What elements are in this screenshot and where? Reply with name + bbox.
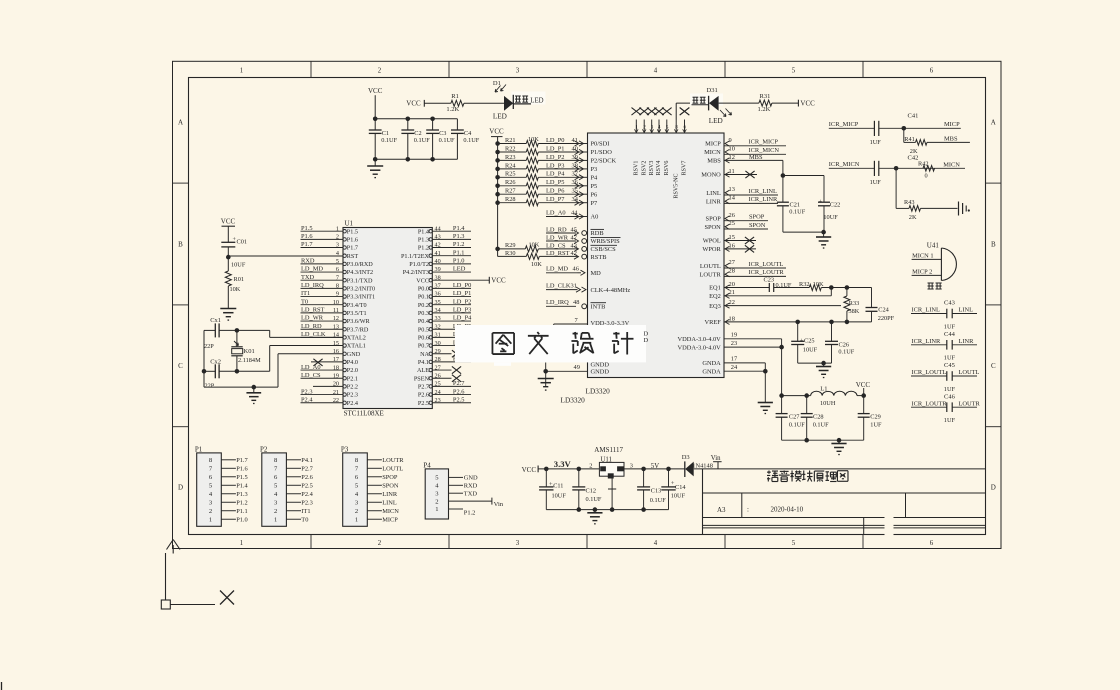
svg-text:MONO: MONO [701,172,721,179]
svg-text:0.1UF: 0.1UF [838,348,854,355]
capacitor C1 [374,119,376,130]
svg-text:13: 13 [729,186,735,193]
resistor R43 2K [895,168,897,208]
net ICR_LOUTL [725,263,730,268]
svg-text:3: 3 [516,540,520,547]
svg-text:P1.0/T2: P1.0/T2 [409,261,429,268]
white stripe [885,514,894,547]
svg-text:R22: R22 [505,145,516,152]
svg-text:P2: P2 [260,446,268,454]
svg-text:P2/SDCK: P2/SDCK [591,158,617,165]
svg-text:9: 9 [729,137,732,144]
svg-text:P2.5: P2.5 [418,400,429,407]
svg-text:46: 46 [573,266,579,273]
resistor R22 [495,150,500,155]
svg-text:RSV2: RSV2 [641,161,647,176]
svg-text:C26: C26 [839,341,850,348]
svg-text:P2.3: P2.3 [301,388,313,395]
capacitor C26 [831,322,833,341]
wire left cap rail [203,330,205,387]
page edge mark [1,682,3,690]
capacitor C12 [578,469,580,487]
capacitor C2 [407,119,409,130]
svg-text:P0.0: P0.0 [418,285,429,292]
net SPON [725,224,730,229]
svg-text:P0.5: P0.5 [418,326,429,333]
svg-text:A: A [178,119,183,127]
label mic chinese [928,282,934,284]
svg-text:P3.0/RXD: P3.0/RXD [347,261,373,268]
wire VCC to C01 [227,226,229,242]
capacitor C3 [432,119,434,130]
resistor R1 1.2K [451,100,464,106]
svg-text:LOUTR: LOUTR [959,400,981,407]
svg-text:K01: K01 [244,348,255,355]
svg-text:P2.4: P2.4 [301,396,313,403]
svg-text:0.1UF: 0.1UF [463,137,479,144]
border frame outer [173,61,1002,548]
svg-text:49: 49 [574,364,580,371]
node C01/R01 junction [226,255,231,260]
svg-text:C42: C42 [908,155,919,162]
net ICR_LINR [725,199,730,204]
svg-text:LINL: LINL [706,190,721,197]
svg-text:LD_P1: LD_P1 [453,290,471,297]
svg-text:SPOP: SPOP [706,216,722,223]
capacitor C24 220PF [871,288,873,308]
U1 pins [343,230,346,233]
svg-text:2: 2 [209,508,212,515]
svg-text:P1.1: P1.1 [236,508,248,515]
svg-text:LD3320: LD3320 [586,387,611,396]
svg-text:GNDD: GNDD [591,369,610,376]
svg-text:P2.3: P2.3 [301,499,313,506]
ground (R01) [220,308,236,310]
svg-text:R1: R1 [451,93,459,100]
wire regulator ground rail [546,509,668,511]
svg-text:3: 3 [630,463,633,470]
svg-text:LOUTR: LOUTR [699,271,721,278]
ground (GNDD) [538,378,554,380]
svg-text:LD_P2: LD_P2 [546,154,564,161]
svg-text:P2.6: P2.6 [418,392,429,399]
wire D31 to R31 [719,102,759,104]
svg-text:GNDA: GNDA [702,360,721,367]
svg-text:27: 27 [729,259,736,266]
LED D31 [690,94,723,106]
border frame inner [189,78,986,535]
svg-text:LD_A0: LD_A0 [301,364,321,371]
title text voice module schematic [767,471,771,473]
svg-text:Vin: Vin [711,455,721,462]
svg-text:D3: D3 [682,454,690,461]
svg-text:2K: 2K [909,214,917,221]
wire cap top rail [375,118,457,120]
watermark text [492,332,514,334]
svg-text:LD_P4: LD_P4 [546,171,565,178]
wire VREF rail [725,319,730,324]
svg-text:T0: T0 [301,516,308,523]
svg-text:40: 40 [572,145,578,152]
svg-text:39: 39 [572,154,578,161]
svg-text:11: 11 [729,168,735,175]
svg-text:P1/SDO: P1/SDO [591,149,613,156]
svg-text:C4: C4 [464,130,472,137]
svg-text:P1.3: P1.3 [236,491,248,498]
wire crystal ground rail [204,386,278,388]
svg-text:RXD: RXD [301,258,315,265]
wire D3 to Vin [694,468,986,470]
wire C25/C26 ground rail [798,362,832,364]
svg-text:1UF: 1UF [944,323,956,330]
svg-text:VCC: VCC [522,466,537,474]
net LD_IRQ [546,305,576,307]
svg-text:C: C [178,362,183,370]
svg-text:LD3320: LD3320 [561,396,586,405]
svg-text:P3.1/TXD: P3.1/TXD [347,277,373,284]
watermark box [455,325,646,362]
capacitor C01 [221,241,235,243]
svg-text:P2.0: P2.0 [347,367,358,374]
svg-text:VCC: VCC [489,128,504,136]
capacitor C22 [818,201,830,203]
LD3320 RSV top pins [635,120,637,134]
svg-text:P3: P3 [591,166,598,173]
net LD_RD [546,232,576,234]
svg-text:L1: L1 [820,386,827,393]
svg-text:ICR_LINL: ICR_LINL [749,188,777,195]
svg-text:P1.2: P1.2 [453,241,465,248]
svg-text:R31: R31 [760,93,771,100]
svg-text:RST: RST [347,253,359,260]
svg-text:LINR: LINR [959,338,975,345]
svg-text:LD_RST: LD_RST [546,250,570,257]
svg-text:P2.7: P2.7 [301,465,313,472]
svg-text:P5: P5 [591,183,598,190]
svg-text:36: 36 [572,179,578,186]
svg-text:R41: R41 [904,136,915,143]
svg-text:P2.7: P2.7 [418,383,429,390]
svg-text:16: 16 [333,348,339,355]
svg-text:0.1UF: 0.1UF [586,496,602,503]
svg-text:10UF: 10UF [803,346,818,353]
svg-text:SPOP: SPOP [749,214,765,221]
title block [702,469,704,535]
svg-text:42: 42 [571,250,577,257]
svg-text:10UF: 10UF [552,492,567,499]
svg-text:10K: 10K [230,286,241,293]
svg-text:2: 2 [274,508,277,515]
svg-text:C: C [991,362,996,370]
inductor L1 10UH [782,395,811,397]
svg-text:23: 23 [731,340,737,347]
svg-text:MBS: MBS [944,135,958,142]
svg-text:2: 2 [378,68,382,75]
svg-text:2.1184M: 2.1184M [238,357,261,364]
svg-text:RDB: RDB [591,230,604,237]
svg-text::: : [747,506,749,514]
svg-text:10K: 10K [528,136,539,143]
resistor R01 [225,271,231,286]
svg-text:C28: C28 [813,413,824,420]
wire MBS to C21/C22 [782,160,784,202]
corner crop mark [167,540,181,554]
svg-text:P0.2: P0.2 [418,302,429,309]
svg-text:VCC: VCC [368,87,383,95]
svg-text:ICR_MICP: ICR_MICP [829,121,859,128]
svg-text:P4.1: P4.1 [301,457,313,464]
connector P3 [343,453,368,526]
svg-text:P1.4: P1.4 [236,482,248,489]
svg-text:LINR: LINR [382,491,398,498]
svg-text:6: 6 [930,540,934,547]
svg-text:LD_MD: LD_MD [301,266,323,273]
svg-text:R25: R25 [505,171,516,178]
svg-text:0.1UF: 0.1UF [650,497,666,504]
svg-text:C27: C27 [789,413,800,420]
svg-text:ICR_LOUTL: ICR_LOUTL [749,261,784,268]
resistor R23 [495,158,500,163]
capacitor C25 [797,322,799,341]
IC U1 STC11L08XE body [343,228,432,409]
resistor R31 1.2K [759,100,772,106]
svg-text:XTAL1: XTAL1 [347,343,366,350]
svg-text:LD_WR: LD_WR [546,234,569,241]
ground (GNDA) [758,402,773,404]
capacitor C28 [806,396,808,414]
svg-text:R27: R27 [505,188,516,195]
svg-text:LD_P5: LD_P5 [546,179,564,186]
svg-text:LED: LED [493,113,507,121]
svg-text:2: 2 [435,498,438,505]
ground (C1-C4) [374,159,376,166]
svg-text:D: D [991,484,996,492]
svg-text:+: + [819,199,823,206]
svg-text:IT1: IT1 [301,508,310,515]
svg-text:C29: C29 [870,413,881,420]
wire C21/C22 ground rail [783,231,824,233]
svg-text:15: 15 [333,340,339,347]
svg-text:VCC: VCC [406,100,421,108]
svg-text:12: 12 [729,154,735,161]
svg-text:VCC: VCC [221,218,236,226]
ground (VREF caps) [816,366,831,368]
svg-text:RSV6: RSV6 [664,161,670,176]
svg-text:SPOP: SPOP [382,474,398,481]
svg-text:Cx1: Cx1 [210,317,221,324]
svg-text:P3.5/T1: P3.5/T1 [347,310,367,317]
svg-text:P3.2/INIT0: P3.2/INIT0 [347,285,375,292]
svg-text:ICR_MICP: ICR_MICP [749,139,779,146]
connector P1 [197,453,222,526]
svg-text:5: 5 [792,68,796,75]
svg-text:C25: C25 [804,338,815,345]
svg-text:220PF: 220PF [878,315,895,322]
svg-text:C45: C45 [944,362,955,369]
svg-text:A3: A3 [717,506,726,514]
capacitor C14 [668,469,670,487]
svg-text:LD_P0: LD_P0 [453,282,471,289]
svg-text:P1.5: P1.5 [301,225,313,232]
svg-text:6: 6 [930,68,934,75]
wire cap bottom rail [375,158,457,160]
pin MONO no-connect [725,172,730,177]
svg-text:MD: MD [591,270,602,277]
svg-text:LOUTL: LOUTL [382,465,403,472]
svg-text:D31: D31 [707,87,718,94]
svg-text:21: 21 [729,289,735,296]
svg-text:INTB: INTB [591,304,606,311]
svg-text:1.2K: 1.2K [446,106,459,113]
svg-text:P1.5: P1.5 [347,228,358,235]
svg-text:P1.3: P1.3 [418,236,429,243]
svg-text:5V: 5V [651,463,659,470]
svg-text:19: 19 [731,332,737,339]
svg-text:P2.3: P2.3 [347,392,358,399]
ground (filter) [838,440,840,443]
svg-text:C13: C13 [651,487,662,494]
svg-text:P1.6: P1.6 [301,233,313,240]
svg-text:P1.7: P1.7 [301,241,313,248]
svg-text:43: 43 [571,242,577,249]
svg-text:2020-04-10: 2020-04-10 [771,506,804,514]
svg-text:P4.0: P4.0 [347,359,358,366]
svg-text:LD_RST: LD_RST [301,307,325,314]
svg-text:P1.7: P1.7 [236,457,248,464]
svg-text:C21: C21 [790,201,801,208]
resistor R28 [495,200,500,205]
svg-text:1: 1 [355,516,358,523]
wire R1 to D1 [464,102,504,104]
wire Cx1 rail to XTAL2 row [269,330,271,337]
resistor R25 [495,175,500,180]
grid column ticks [310,61,312,77]
svg-text:LD_RD: LD_RD [301,323,322,330]
svg-text:LD_A0: LD_A0 [546,209,566,216]
svg-text:4: 4 [654,540,658,547]
svg-text:P4: P4 [591,175,599,182]
svg-text:R24: R24 [505,162,516,169]
svg-text:10K: 10K [531,261,542,268]
svg-text:R28: R28 [505,196,516,203]
svg-text:VDDA-3.0-4.0V: VDDA-3.0-4.0V [677,344,721,351]
svg-text:MICN: MICN [382,508,399,515]
pin WPOL no-connect [725,238,730,243]
svg-text:LD_CLK31: LD_CLK31 [546,282,577,289]
net label red LED [693,96,699,98]
svg-text:LD_P2: LD_P2 [453,298,471,305]
svg-text:2: 2 [378,540,382,547]
svg-text:VREF: VREF [704,319,721,326]
svg-text:P3.6/WR: P3.6/WR [347,318,371,325]
svg-text:R23: R23 [505,154,516,161]
svg-text:D: D [178,484,183,492]
svg-text:1UF: 1UF [944,417,956,424]
svg-text:3: 3 [516,68,520,75]
capacitor C11 [545,469,547,487]
svg-text:P0/SDI: P0/SDI [591,141,610,148]
svg-text:LD_IRQ: LD_IRQ [546,299,569,306]
svg-text:P1.2: P1.2 [418,245,429,252]
wire junction to U1 pin4 RST [228,255,343,257]
svg-text:STC11L08XE: STC11L08XE [344,410,384,418]
resistor R21 [495,141,500,146]
svg-text:R21: R21 [505,137,516,144]
svg-text:R26: R26 [505,179,516,186]
wire VCC to R1 [424,102,451,104]
svg-text:PSEN: PSEN [414,375,430,382]
svg-text:P0.1: P0.1 [418,294,429,301]
node crystal top [235,328,240,333]
svg-text:45: 45 [571,226,577,233]
svg-text:0.1UF: 0.1UF [439,137,455,144]
svg-text:LD_P3: LD_P3 [546,162,564,169]
svg-text:P2.6: P2.6 [301,474,313,481]
wire R01 to ground [227,286,229,309]
net MICP 2 [912,274,942,276]
svg-text:LED: LED [453,266,466,273]
net LD_CLK [546,289,578,291]
ground (crystal) [253,387,255,393]
wire 3.3V rail [538,468,685,470]
svg-text:IT1: IT1 [301,290,310,297]
capacitor C29 [863,396,865,414]
resistor R33 38K [846,288,848,297]
svg-text:U11: U11 [601,457,612,464]
svg-text:P7: P7 [591,200,599,207]
svg-text:22: 22 [729,299,735,306]
resistor R29 [495,247,500,252]
wire Cx2 rail to XTAL1 row [269,346,271,372]
svg-text:20: 20 [729,281,735,288]
svg-text:C22: C22 [830,201,841,208]
wire VCC rail [497,137,499,257]
svg-text:EQ1: EQ1 [709,285,721,292]
jack symbol [958,202,960,216]
svg-text:P0.6: P0.6 [418,334,429,341]
svg-text:1N4148: 1N4148 [692,462,713,469]
svg-text:A0: A0 [591,214,599,221]
svg-text:RSTB: RSTB [591,254,607,261]
svg-text:RSV7: RSV7 [682,161,688,176]
svg-text:VDDA-3.0-4.0V: VDDA-3.0-4.0V [677,336,721,343]
svg-text:LD_P4: LD_P4 [453,315,472,322]
svg-text:10: 10 [729,145,735,152]
svg-text:1: 1 [240,68,243,75]
svg-text:LOUTL: LOUTL [959,369,980,376]
svg-text:RSV1: RSV1 [634,161,640,176]
wire GNDD pin49 [546,370,588,372]
svg-text:P1.0: P1.0 [453,258,465,265]
resistor R27 [495,192,500,197]
svg-text:ICR_MICN: ICR_MICN [829,161,860,168]
power flag VCC (U1 pin38) [488,277,490,284]
svg-text:P4.2/INT3: P4.2/INT3 [403,269,429,276]
resistor R24 [495,167,500,172]
svg-text:R30: R30 [505,250,516,257]
svg-text:C1: C1 [382,130,389,137]
pin WPOR no-connect [725,246,730,251]
svg-text:LD_RD: LD_RD [546,226,567,233]
svg-text:RSV4: RSV4 [656,161,662,176]
svg-text:P1.7: P1.7 [347,245,358,252]
net ICR_LOUTR [725,272,730,277]
net LD_A0 [546,216,578,218]
svg-text:LOUTL: LOUTL [700,263,721,270]
svg-text:C01: C01 [237,239,248,246]
svg-text:TXD: TXD [301,274,315,281]
svg-text:P4.3/INT2: P4.3/INT2 [347,269,373,276]
